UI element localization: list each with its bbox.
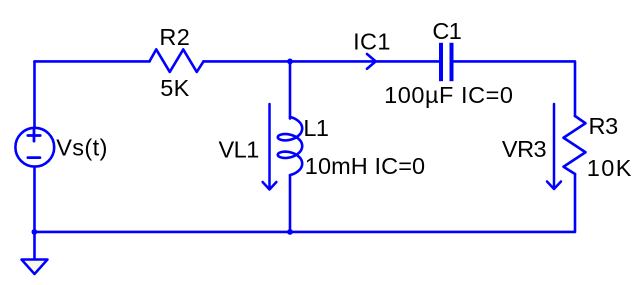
svg-text:5K: 5K [160,75,190,101]
svg-text:10mH IC=0: 10mH IC=0 [305,153,425,179]
svg-text:100µF IC=0: 100µF IC=0 [384,82,513,108]
svg-text:VR3: VR3 [502,136,547,162]
svg-text:IC1: IC1 [353,28,391,54]
svg-text:Vs(t): Vs(t) [56,135,108,161]
svg-text:R2: R2 [159,24,190,50]
svg-text:10K: 10K [587,155,633,181]
svg-text:L1: L1 [303,115,328,141]
svg-text:R3: R3 [589,113,619,139]
svg-text:C1: C1 [432,18,461,44]
svg-text:VL1: VL1 [219,137,259,163]
